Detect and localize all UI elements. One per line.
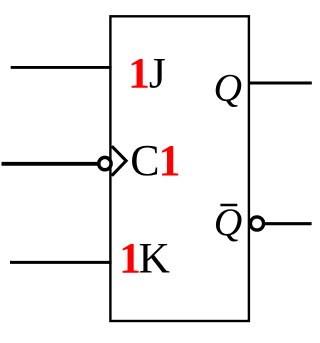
JK flip-flop body U1: [110, 16, 249, 321]
svg-text:1J: 1J: [128, 49, 166, 97]
wire Q-bar output: [265, 222, 312, 225]
overbar of Q-bar: [220, 204, 237, 206]
svg-text:C1: C1: [130, 136, 180, 185]
inversion bubble on CLK: [99, 157, 111, 169]
inversion bubble on Q-bar: [250, 217, 263, 230]
wire J input: [11, 66, 112, 69]
wire Q output: [249, 81, 312, 84]
wire K input: [10, 261, 112, 264]
svg-text:Q: Q: [214, 65, 243, 109]
svg-text:1K: 1K: [119, 235, 170, 283]
edge-trigger triangle: [112, 146, 126, 176]
svg-text:Q: Q: [214, 200, 243, 244]
wire CLK input: [2, 162, 98, 166]
